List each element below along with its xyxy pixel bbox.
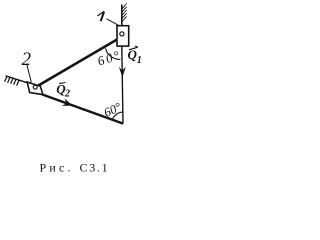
svg-text:1: 1: [137, 55, 142, 66]
angle arc 60 top: [106, 48, 121, 59]
hinge pin circle 1: [120, 32, 124, 36]
vertical guide rail (top right): [121, 5, 123, 27]
wall hatching (left support): [5, 76, 19, 85]
svg-text:Рис.: Рис.: [40, 161, 74, 175]
slider box 1: [117, 26, 129, 46]
angle arc 60 bottom: [112, 112, 123, 120]
rod 2 / force Q2 line (slider 2 to bottom vertex): [42, 94, 123, 123]
leader line to slider 1: [107, 19, 120, 26]
svg-text:2: 2: [22, 49, 32, 70]
wall hatching (top vertical guide support): [122, 4, 126, 22]
force Q2 arrowhead: [62, 98, 73, 106]
hinge pin circle 2: [33, 85, 37, 89]
label Q2 vector bar: [59, 83, 65, 84]
inclined guide rail (left): [6, 76, 28, 83]
svg-text:С3.1: С3.1: [80, 161, 110, 175]
rod 1 (hinge 2 to slider 1): [35, 40, 117, 88]
force Q1 arrowhead: [119, 67, 126, 78]
label Q1 vector bar: [129, 46, 138, 50]
slider box 2: [27, 82, 43, 95]
vertical rod / force Q1 line: [122, 46, 123, 123]
svg-text:2: 2: [64, 89, 70, 100]
leader line to slider 2: [27, 65, 32, 83]
label 1: [97, 11, 104, 21]
